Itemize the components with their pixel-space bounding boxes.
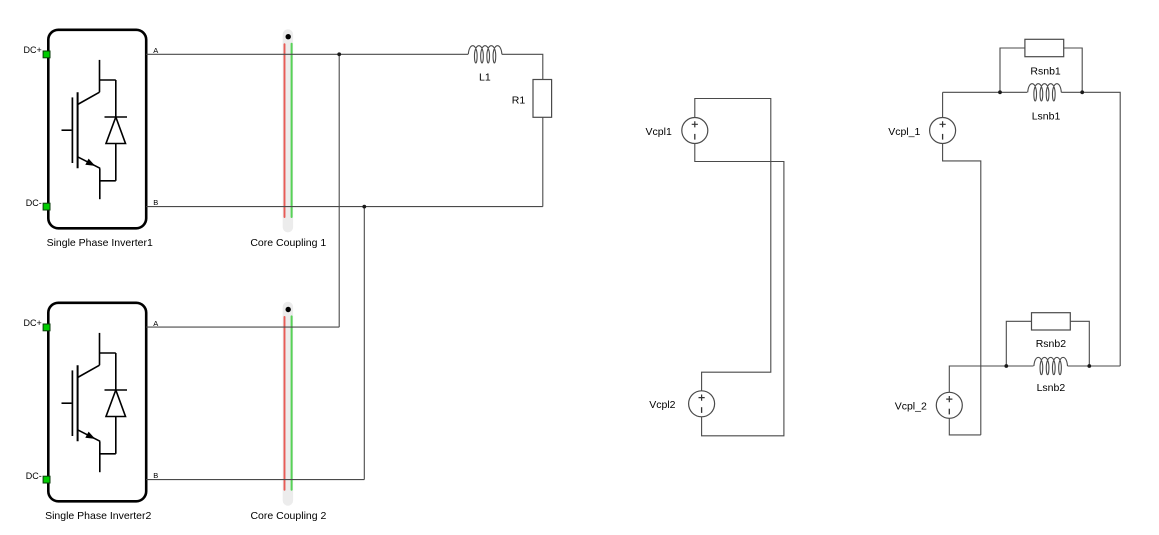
node junction on wire B1 [362, 205, 366, 209]
node junction Rsnb1-Lsnb1 right [1080, 90, 1084, 94]
svg-text:Vcpl_1: Vcpl_1 [888, 126, 920, 138]
IGBT Q1 collector-diode branch [100, 79, 116, 81]
resistor R1 [533, 80, 552, 118]
wire vertical link node A to inverter2 wire A2 [338, 54, 340, 327]
core coupling 2 green winding line [291, 316, 293, 489]
IGBT Q1 emitter-diode branch [100, 180, 116, 182]
port DC- terminal inverter2 [43, 476, 50, 483]
wire from R1 bottom to wire B1 level [542, 117, 544, 206]
Vcpl_1 plus sign [940, 121, 946, 127]
wire Rsnb1 left branch [1000, 48, 1025, 92]
wire Vcpl1 plus terminal loop to Vcpl2 plus terminal [695, 99, 771, 391]
Vcpl2 minus dash [701, 407, 703, 413]
Vcpl_2 plus sign [946, 396, 952, 402]
core coupling 1 [250, 29, 326, 249]
svg-text:Vcpl2: Vcpl2 [649, 399, 675, 411]
node junction on wire A1 [337, 52, 341, 56]
node junction Rsnb2-Lsnb2 left [1004, 364, 1008, 368]
IGBT Q1 emitter arrow [85, 159, 95, 166]
Vcpl_2 minus dash [948, 409, 950, 415]
inductor Lsnb2 [1034, 357, 1068, 374]
wire Lsnb2 row from Lsnb2 to right vertical [1068, 365, 1121, 367]
svg-text:DC-: DC- [26, 198, 42, 208]
IGBT Q2 gate lead [62, 402, 72, 404]
IGBT Q1 body bar [77, 92, 79, 168]
single phase inverter 1 block [24, 30, 159, 249]
wire Vcpl_1 plus lead up to main rail [942, 92, 944, 117]
wires of left circuit [146, 54, 543, 479]
IGBT Q1 emitter diagonal [78, 157, 101, 169]
svg-text:DC-: DC- [26, 471, 42, 481]
diode D2 bottom lead [115, 417, 117, 454]
wire A1 from inverter1 port A to L1 [146, 53, 468, 55]
Vcpl_2 circle [936, 392, 962, 418]
IGBT Q1 gate lead [62, 129, 72, 131]
wire A2 from inverter2 port A to vertical link [146, 326, 339, 328]
svg-text:Rsnb1: Rsnb1 [1030, 66, 1061, 78]
wire main rail from Lsnb1 to right corner, down to Lsnb2 row [1061, 92, 1120, 366]
svg-text:B: B [153, 471, 158, 480]
Vcpl_1 circle [930, 118, 956, 144]
svg-text:Vcpl1: Vcpl1 [646, 126, 672, 138]
core coupling 1 dot marker [286, 34, 291, 39]
IGBT Q2 emitter-diode branch [100, 453, 116, 455]
resistor Rsnb2 [1032, 313, 1071, 330]
core coupling 2 [250, 302, 326, 522]
port DC+ terminal inverter2 [43, 324, 50, 331]
IGBT Q1 emitter lead [99, 168, 101, 199]
wire main rail from Vcpl_1 to Lsnb1 [943, 91, 1028, 93]
diode D1 cathode bar [105, 116, 128, 118]
voltage source Vcpl_2 [895, 392, 963, 418]
Vcpl2 plus sign [699, 395, 705, 401]
IGBT Q2 emitter lead [99, 441, 101, 472]
resistor Rsnb1 [1025, 39, 1064, 56]
voltage source Vcpl1 [646, 118, 708, 144]
IGBT Q1 collector diagonal [78, 92, 100, 104]
IGBT Q2 emitter arrow [85, 432, 95, 439]
wire from L1 to corner and down to R1 [502, 54, 543, 79]
svg-text:Rsnb2: Rsnb2 [1036, 338, 1067, 350]
IGBT Q2 collector stub [99, 333, 101, 365]
wires of middle coupling circuit [695, 99, 784, 436]
diode D1 triangle [106, 117, 126, 144]
inductor L1 [468, 46, 502, 63]
diode D1 top lead [115, 80, 117, 117]
single phase inverter 2 block [24, 303, 159, 522]
Vcpl_1 minus dash [942, 134, 944, 140]
wire Rsnb1 right branch [1064, 48, 1083, 92]
wires of right snubber circuit [943, 48, 1121, 435]
svg-text:L1: L1 [479, 71, 491, 83]
wire Rsnb2 left branch [1006, 321, 1031, 366]
wire Vcpl1 minus terminal loop to Vcpl2 minus terminal [695, 144, 784, 436]
core coupling 1 green winding line [291, 44, 293, 217]
port DC- terminal inverter1 [43, 203, 50, 210]
voltage source Vcpl2 [649, 391, 714, 417]
svg-text:Single Phase Inverter2: Single Phase Inverter2 [45, 510, 151, 522]
svg-text:B: B [153, 198, 158, 207]
wire B1 from inverter1 port B to R1 branch [146, 206, 543, 208]
wire vertical link node B to inverter2 wire B2 [363, 207, 365, 480]
IGBT Q2 emitter diagonal [78, 430, 101, 442]
core coupling 2 red winding line [284, 317, 286, 490]
core coupling 2 capsule body [283, 302, 293, 506]
node junction Rsnb2-Lsnb2 right [1087, 364, 1091, 368]
IGBT Q2 gate bar [71, 370, 73, 436]
diode D2 cathode bar [105, 389, 128, 391]
svg-text:Core Coupling 1: Core Coupling 1 [250, 237, 326, 249]
core coupling 1 red winding line [284, 44, 286, 217]
svg-text:A: A [153, 319, 158, 328]
core coupling 1 capsule body [283, 29, 293, 232]
svg-text:Lsnb2: Lsnb2 [1037, 382, 1066, 394]
wire Lsnb2 row from Vcpl_2 corner to Lsnb2 [949, 366, 1033, 392]
IGBT Q2 collector-diode branch [100, 352, 116, 354]
Vcpl1 circle [682, 118, 708, 144]
block outline U1 Single Phase Inverter1 [48, 30, 146, 229]
IGBT Q1 collector stub [99, 60, 101, 92]
voltage source Vcpl_1 [888, 118, 955, 144]
inductor Lsnb1 [1028, 84, 1062, 101]
core coupling 2 dot marker [286, 307, 291, 312]
svg-text:Single Phase Inverter1: Single Phase Inverter1 [47, 237, 153, 249]
diode D2 triangle [106, 390, 126, 417]
wire Rsnb2 right branch [1070, 321, 1089, 366]
svg-text:Core Coupling 2: Core Coupling 2 [250, 510, 326, 522]
IGBT Q1 gate bar [71, 97, 73, 163]
IGBT Q2 body bar [77, 365, 79, 441]
wire Vcpl_2 minus lead down to bottom corner [949, 418, 981, 435]
svg-text:R1: R1 [512, 95, 526, 107]
Vcpl2 circle [689, 391, 715, 417]
Vcpl1 plus sign [692, 121, 698, 127]
block outline U2 Single Phase Inverter2 [48, 303, 146, 502]
port DC+ terminal inverter1 [43, 51, 50, 58]
svg-text:DC+: DC+ [24, 45, 42, 55]
wire B2 from inverter2 port B to vertical link [146, 479, 364, 481]
diode D1 bottom lead [115, 144, 117, 181]
svg-text:Lsnb1: Lsnb1 [1032, 110, 1061, 122]
IGBT Q2 collector diagonal [78, 365, 100, 377]
diode D2 top lead [115, 353, 117, 390]
node junction Rsnb1-Lsnb1 left [998, 90, 1002, 94]
svg-text:A: A [153, 46, 158, 55]
Vcpl1 minus dash [694, 134, 696, 140]
wire Vcpl_1 minus lead down right and down to Vcpl_2 loop [943, 144, 981, 435]
svg-text:DC+: DC+ [24, 318, 42, 328]
svg-text:Vcpl_2: Vcpl_2 [895, 401, 927, 413]
